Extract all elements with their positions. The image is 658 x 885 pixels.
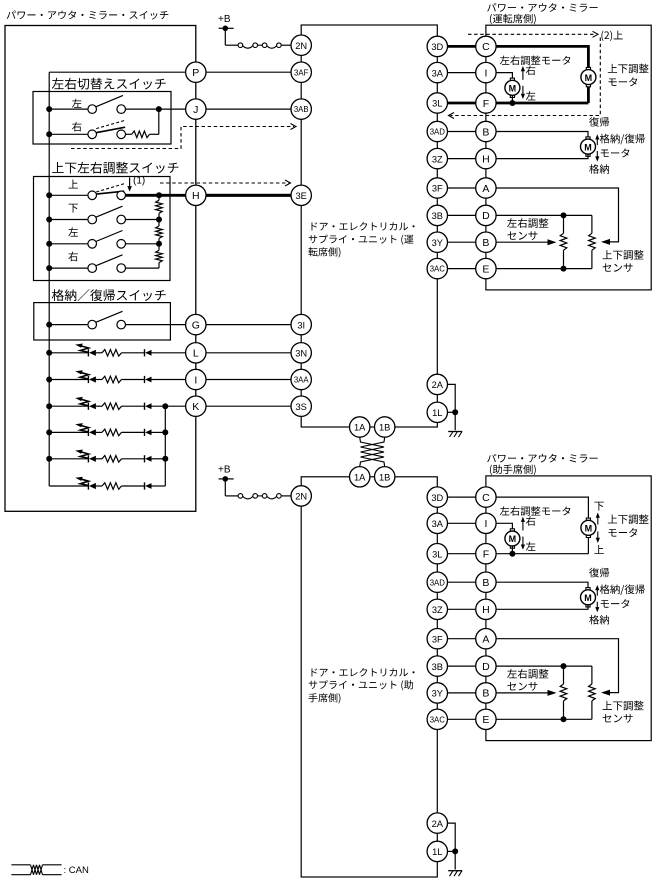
- svg-text:3Y: 3Y: [432, 238, 443, 248]
- wire LED to resistor (row 1): [96, 352, 102, 354]
- terminal 1B (driver bottom): [375, 417, 395, 437]
- switch contact left (adjust left): [88, 240, 97, 249]
- label: motor (passenger): [601, 599, 630, 608]
- label: power outer mirror (driver): [487, 3, 597, 12]
- connector terminal H (mirror driver): [476, 148, 496, 168]
- switch lever alternate position (dashed): [96, 120, 126, 129]
- wire left-right motor to F row (driver): [511, 95, 513, 103]
- label: up (adjust): [69, 180, 78, 189]
- svg-text:I: I: [194, 374, 197, 386]
- wire A to up-down sensor wiper (driver): [496, 188, 618, 242]
- wire E to sensors (driver): [496, 268, 592, 270]
- junction on bus (illumination row 5): [46, 456, 52, 462]
- switch contact left (retract): [88, 320, 97, 329]
- terminal 1L (unit driver): [427, 402, 447, 422]
- wire 3AC-E (driver): [448, 268, 476, 270]
- svg-text:C: C: [482, 492, 490, 504]
- thick wire up-switch contact to H and 3E: [125, 194, 302, 197]
- svg-text:F: F: [483, 98, 489, 110]
- direction arrow left (driver): [522, 86, 524, 97]
- wire LED to resistor (row 4): [96, 431, 102, 433]
- terminal 1B (passenger top): [375, 467, 395, 487]
- connector terminal 3B (unit passenger right): [427, 656, 447, 676]
- wire retract motor to H row (driver): [496, 154, 588, 159]
- junction on bus (illumination row 3): [46, 403, 52, 409]
- connector terminal F (mirror passenger): [476, 544, 496, 564]
- svg-text:3I: 3I: [297, 320, 305, 330]
- svg-text:3AC: 3AC: [430, 265, 446, 274]
- svg-text:M: M: [584, 142, 592, 152]
- arrowhead of (1) dashed path: [285, 180, 291, 186]
- resistor (illumination row 5): [102, 456, 122, 463]
- +B feed bar and node (passenger): [219, 478, 234, 480]
- svg-text:3A: 3A: [432, 519, 444, 529]
- up-down adjusting motor M (driver): [581, 67, 596, 86]
- dashed flow path (2) up (driver): [468, 33, 596, 35]
- wire bus to LED (row 6): [49, 485, 88, 487]
- terminal 1A (passenger top): [350, 467, 370, 487]
- svg-text:1L: 1L: [432, 408, 442, 418]
- junction on bus (selector left row): [46, 106, 52, 112]
- svg-text:: CAN: : CAN: [64, 865, 89, 876]
- connector terminal 3A (unit driver right): [427, 62, 447, 82]
- connector terminal A (mirror passenger): [476, 629, 496, 649]
- svg-text:1B: 1B: [379, 473, 390, 483]
- connector terminal 3Z (unit passenger right): [427, 599, 447, 619]
- resistor chain R1 (up-down): [156, 200, 163, 213]
- label: return (driver): [589, 117, 609, 127]
- resistor chain R2 (down-left): [156, 226, 163, 238]
- svg-text:1A: 1A: [354, 423, 366, 433]
- illumination LED D2: [88, 376, 96, 383]
- svg-text:3B: 3B: [432, 662, 443, 672]
- connector terminal 3F (unit passenger right): [427, 629, 447, 649]
- wire 3F-A (passenger): [448, 638, 476, 640]
- label: power outer mirror switch title: [7, 10, 169, 19]
- resistor (illumination row 1): [102, 350, 122, 357]
- svg-text:2A: 2A: [432, 380, 444, 390]
- wire contact to resistor (selector right): [126, 133, 132, 135]
- svg-text:(1): (1): [133, 176, 145, 187]
- connector terminal 3E (unit driver left): [291, 185, 311, 205]
- ground branch wire from 2A (passenger): [448, 823, 456, 869]
- connector terminal 3AF (unit driver left): [291, 62, 311, 82]
- operation arrow (1) pointing to up switch: [129, 178, 131, 189]
- wire bus to left contact (adjust left): [49, 243, 88, 245]
- connector terminal G (mirror switch): [186, 314, 206, 334]
- junction dot E row sensor1 (passenger): [561, 716, 567, 722]
- svg-text:3Z: 3Z: [432, 605, 443, 615]
- svg-text:M: M: [585, 73, 593, 83]
- label: retract (passenger): [589, 615, 609, 625]
- junction dot down row: [156, 217, 162, 223]
- connector terminal I (mirror switch): [186, 369, 206, 389]
- left-right adjusting motor M (passenger): [505, 529, 520, 548]
- switch contact right (selector left): [117, 105, 126, 114]
- connector terminal 3AD (unit passenger right): [427, 572, 447, 592]
- svg-text:3Y: 3Y: [432, 689, 443, 699]
- wire J-3AB: [206, 108, 291, 110]
- wire resistor to junction riser: [150, 133, 159, 135]
- wire 1L to ground branch: [448, 411, 456, 413]
- svg-text:H: H: [482, 153, 490, 165]
- connector terminal 3Y (unit passenger right): [427, 683, 447, 703]
- wire bus to LED (row 3): [49, 405, 88, 407]
- wire B to retract motor (passenger): [496, 582, 588, 590]
- switch contact right (selector right): [117, 130, 126, 139]
- junction dot K-column row 4: [162, 429, 168, 435]
- label: door electrical supply unit (driver) line1: [311, 222, 414, 231]
- direction arrow up (passenger): [597, 532, 599, 540]
- junction on bus (adjust down row): [46, 217, 52, 223]
- wire 3F-A (driver): [448, 187, 476, 189]
- label: return (passenger): [589, 568, 609, 578]
- connector terminal L (mirror switch): [186, 343, 206, 363]
- connector terminal C (mirror driver): [476, 36, 496, 56]
- svg-text:H: H: [482, 604, 490, 616]
- svg-text:M: M: [585, 524, 593, 534]
- resistor (illumination row 6): [102, 483, 122, 490]
- connector terminal 3B (unit driver right): [427, 205, 447, 225]
- svg-text:3D: 3D: [431, 42, 443, 52]
- svg-text:A: A: [482, 634, 489, 646]
- svg-text:3L: 3L: [432, 549, 442, 559]
- wire resistor to diode (row 6): [122, 485, 145, 487]
- svg-text:B: B: [482, 577, 489, 589]
- connector terminal 3L (unit driver right): [427, 93, 447, 113]
- switch contact left (selector left): [88, 105, 97, 114]
- label: left-right adjusting sensor (passenger): [507, 669, 548, 679]
- retract/return switch box: [34, 303, 171, 340]
- left-right adjusting sensor (potentiometer) (passenger): [563, 666, 565, 684]
- connector terminal 3F (unit driver right): [427, 178, 447, 198]
- connector terminal 3AD (unit driver right): [427, 121, 447, 141]
- wire retract motor to H row (passenger): [496, 604, 588, 609]
- svg-text:M: M: [584, 593, 592, 603]
- label: right (passenger): [526, 516, 536, 526]
- wire C to up-down motor (passenger): [496, 497, 588, 554]
- wire retract contact to G: [126, 324, 186, 326]
- junction dot up row at resistor chain: [156, 192, 162, 198]
- wire 3L-F (passenger): [448, 553, 476, 555]
- wire 3D-C (passenger): [448, 496, 476, 498]
- switch lever alternate position dashed (adjust up): [96, 183, 125, 192]
- svg-text:D: D: [482, 661, 490, 673]
- svg-text:I: I: [484, 67, 487, 79]
- junction on bus (illumination row 2): [46, 377, 52, 383]
- wire bus to LED (row 5): [49, 458, 88, 460]
- label line2: [309, 680, 413, 690]
- svg-text:+B: +B: [218, 14, 231, 25]
- illumination LED D4: [88, 429, 96, 436]
- svg-text:I: I: [484, 518, 487, 530]
- switch lever (retract, open): [96, 311, 123, 322]
- junction dot K row: [162, 403, 168, 409]
- label: retract/return (driver): [600, 134, 645, 145]
- wire C to up-down motor (driver): [496, 46, 588, 103]
- illumination LED D5: [88, 455, 96, 462]
- resistor (illumination row 4): [102, 429, 122, 436]
- label line3: [309, 693, 341, 703]
- retract/return motor M (passenger): [581, 588, 596, 607]
- connector terminal E (mirror passenger): [476, 709, 496, 729]
- terminal 2A (unit driver): [427, 374, 447, 394]
- power outer mirror switch box: [5, 26, 196, 512]
- ground (passenger unit): [448, 871, 462, 877]
- left-right adjusting sensor (potentiometer) (driver): [563, 215, 565, 233]
- connector terminal 3AC (unit driver right): [427, 258, 447, 278]
- connector terminal 3D (unit passenger right): [427, 487, 447, 507]
- retract/return motor M (driver): [581, 137, 596, 156]
- wire I-3AA: [206, 379, 291, 381]
- connector terminal B (mirror driver): [476, 232, 496, 252]
- wire G-3I: [206, 324, 291, 326]
- label: retract (driver): [589, 164, 609, 174]
- up-down adjusting motor M (passenger): [581, 518, 596, 537]
- wire E to sensors (passenger): [496, 718, 592, 720]
- label: up (passenger): [594, 545, 603, 554]
- junction dot ground branch: [452, 409, 458, 415]
- connector terminal 3S (unit driver left): [291, 396, 311, 416]
- CAN legend twisted pair symbol: [11, 865, 61, 875]
- junction dot K-column row 5: [162, 456, 168, 462]
- label: down (passenger): [594, 502, 603, 511]
- direction arrow left (passenger): [522, 537, 524, 548]
- switch contact left (adjust down): [88, 215, 97, 224]
- svg-text:1B: 1B: [379, 423, 390, 433]
- terminal 2N (unit passenger): [291, 486, 311, 506]
- svg-text:3E: 3E: [296, 191, 307, 201]
- wire 3AD-B (passenger): [448, 581, 476, 583]
- svg-text:E: E: [482, 263, 489, 275]
- svg-text:2N: 2N: [295, 492, 307, 502]
- dashed return path (driver): [451, 38, 601, 116]
- connector terminal A (mirror driver): [476, 178, 496, 198]
- illumination LED D1: [88, 349, 96, 356]
- dashed flow path from selector switch to 3AB: [71, 127, 294, 149]
- svg-text:1A: 1A: [354, 473, 366, 483]
- wire B to left-right sensor wiper (passenger): [496, 692, 548, 694]
- wire H-3E: [206, 194, 291, 197]
- label: retract/return switch: [52, 289, 166, 301]
- diode (illumination row 1): [145, 349, 152, 356]
- junction dot motor on F row (passenger): [509, 551, 515, 557]
- junction on bus (retract row): [46, 322, 52, 328]
- svg-text:M: M: [509, 84, 517, 94]
- CAN twisted pair wires: [360, 437, 385, 467]
- label: up-down adjusting sensor (driver): [603, 250, 644, 260]
- wire F row to up-down motor corner (driver): [496, 102, 588, 105]
- diode (illumination row 3): [145, 403, 152, 410]
- wire 3Y-B (driver): [448, 241, 476, 243]
- dashed flow path (1) from up switch to 3E: [160, 182, 289, 184]
- svg-text:3AF: 3AF: [294, 68, 309, 77]
- connector terminal B (mirror passenger): [476, 683, 496, 703]
- wire diode to K-column (row 4): [152, 431, 166, 433]
- label: left-right adjusting motor (driver): [500, 56, 571, 66]
- label: left (passenger): [526, 542, 536, 551]
- circuit breaker coil to 2N (passenger): [225, 494, 291, 499]
- terminal 1A (driver bottom): [350, 417, 370, 437]
- connector terminal 3Z (unit driver right): [427, 148, 447, 168]
- connector terminal 3AA (unit driver left): [291, 369, 311, 389]
- wire L-3N: [206, 352, 291, 354]
- return direction arrow (driver): [596, 137, 598, 145]
- K-column vertical wire: [164, 406, 166, 486]
- wire diode to terminal (row 2): [152, 379, 186, 381]
- svg-text:H: H: [192, 190, 200, 202]
- wire K-3S: [206, 405, 291, 407]
- wire LED to resistor (row 3): [96, 405, 102, 407]
- label: power outer mirror (passenger): [487, 454, 597, 463]
- connector terminal B (mirror passenger): [476, 572, 496, 592]
- junction on bus (adjust right row): [46, 265, 52, 271]
- wire 3B-D (driver): [448, 214, 476, 216]
- wire D to sensors (passenger): [496, 665, 592, 667]
- wire resistor to diode (row 2): [122, 379, 145, 381]
- connector terminal 3L (unit passenger right): [427, 544, 447, 564]
- svg-text:A: A: [482, 183, 489, 195]
- wire 3D-C (driver): [448, 45, 476, 48]
- junction dot D row sensor1 (driver): [561, 212, 567, 218]
- junction on bus (illumination row 1): [46, 350, 52, 356]
- label: left (driver): [526, 91, 536, 100]
- connector terminal B (mirror driver): [476, 121, 496, 141]
- wire down contact to chain: [126, 219, 160, 221]
- wire bus to left contact (selector left): [49, 108, 88, 110]
- switch contact left (adjust up): [88, 191, 97, 200]
- wire bus to left contact (adjust up): [49, 194, 88, 196]
- wire bus to left contact (adjust right): [49, 267, 88, 269]
- wire bus to left contact (retract): [49, 324, 88, 326]
- switch contact left (adjust right): [88, 264, 97, 273]
- direction arrow right (driver): [522, 68, 524, 80]
- wire diode through junction to K: [152, 405, 186, 407]
- junction resistor branch on left row: [156, 106, 162, 112]
- wire F row to up-down motor corner (passenger): [496, 553, 588, 555]
- switch lever (adjust right, open): [96, 255, 123, 266]
- connector terminal C (mirror passenger): [476, 487, 496, 507]
- wire 3Z-H (passenger): [448, 608, 476, 610]
- wire 1L to ground branch (passenger): [448, 850, 456, 852]
- wire resistor to diode (row 4): [122, 431, 145, 433]
- connector terminal K (mirror switch): [186, 396, 206, 416]
- wire 3AC-E (passenger): [448, 718, 476, 720]
- wire 3Z-H (driver): [448, 158, 476, 160]
- wire resistor to diode (row 3): [122, 405, 145, 407]
- wire I to left-right motor (driver): [496, 73, 512, 81]
- wire 3AD-B (driver): [448, 131, 476, 133]
- up-down adjusting sensor (potentiometer) (passenger): [591, 666, 593, 684]
- junction on bus (adjust left row): [46, 241, 52, 247]
- wire D to sensors (driver): [496, 214, 592, 216]
- connector terminal H (mirror switch): [186, 185, 206, 205]
- left-right adjusting motor M (driver): [505, 78, 520, 97]
- label: right (adjust): [68, 252, 78, 262]
- svg-text:2A: 2A: [432, 819, 444, 829]
- svg-text:1L: 1L: [432, 847, 442, 857]
- wire left-right motor to F row (passenger): [511, 546, 513, 554]
- label: down (adjust): [69, 204, 78, 213]
- switch contact right (adjust right): [117, 264, 126, 273]
- wire B to left-right sensor wiper (driver): [496, 241, 548, 243]
- svg-text:3F: 3F: [432, 634, 443, 644]
- connector terminal E (mirror driver): [476, 258, 496, 278]
- label: right (selector): [72, 122, 82, 132]
- switch contact right (adjust up): [117, 191, 126, 200]
- retract direction arrow (passenger): [596, 602, 598, 610]
- label line2: [309, 235, 414, 245]
- svg-text:J: J: [193, 104, 198, 116]
- wire selector-left contact to J: [126, 108, 186, 110]
- switch lever (adjust up, closed): [96, 191, 124, 194]
- svg-text:3Z: 3Z: [432, 154, 443, 164]
- wire 3A-I (passenger): [448, 522, 476, 524]
- connector terminal 2N (unit driver left): [291, 35, 311, 55]
- label: (2) up: [601, 31, 622, 41]
- supply bus vertical: [48, 72, 50, 486]
- svg-text:3L: 3L: [432, 99, 442, 109]
- junction on bus (illumination row 4): [46, 429, 52, 435]
- wire bus to LED (row 1): [49, 352, 88, 354]
- direction arrow down (passenger): [597, 516, 599, 525]
- ground branch wire from 2A: [448, 384, 456, 430]
- wire 3Y-B (passenger): [448, 692, 476, 694]
- svg-text:F: F: [483, 549, 489, 561]
- resistor (illumination row 2): [102, 376, 122, 383]
- label: door electrical supply unit (passenger) line1: [311, 668, 414, 677]
- label: left (selector): [72, 99, 82, 108]
- label: motor (driver): [601, 148, 630, 157]
- wire bus to LED (row 2): [49, 379, 88, 381]
- power outer mirror (driver) box: [486, 25, 651, 290]
- switch lever (adjust left, open): [96, 231, 123, 242]
- svg-text:D: D: [482, 210, 490, 222]
- label: left-right selector switch: [52, 78, 166, 90]
- connector terminal I (mirror driver): [476, 62, 496, 82]
- illumination LED D3: [88, 403, 96, 410]
- label: up-down-left-right adjusting switch: [52, 162, 178, 174]
- svg-text:3S: 3S: [296, 402, 307, 412]
- connector terminal D (mirror passenger): [476, 656, 496, 676]
- wire left contact to chain: [126, 243, 160, 245]
- switch contact right (adjust down): [117, 215, 126, 224]
- svg-text:P: P: [192, 67, 199, 79]
- wire P-3AF: [206, 71, 291, 73]
- svg-text:3A: 3A: [432, 68, 444, 78]
- junction on bus (selector right row): [46, 131, 52, 137]
- svg-text:3F: 3F: [432, 184, 443, 194]
- svg-text:B: B: [482, 237, 489, 249]
- adjusting switch box: [34, 177, 171, 281]
- connector terminal H (mirror passenger): [476, 599, 496, 619]
- wire LED to resistor (row 6): [96, 485, 102, 487]
- svg-text:+B: +B: [218, 464, 231, 475]
- connector terminal 3N (unit driver left): [291, 343, 311, 363]
- svg-text:G: G: [192, 319, 200, 331]
- junction on bus (adjust up row): [46, 192, 52, 198]
- wire A to up-down sensor wiper (passenger): [496, 639, 618, 693]
- switch lever (selector right, closed): [96, 127, 125, 133]
- resistor (selector right row): [132, 131, 150, 138]
- wire right contact to chain bottom: [126, 267, 160, 269]
- label: up-down adjusting motor (passenger): [608, 514, 649, 524]
- svg-text:B: B: [482, 126, 489, 138]
- switch lever (selector left, open): [96, 95, 123, 106]
- wire bus to left contact (adjust down): [49, 219, 88, 221]
- label: right (driver): [526, 65, 536, 75]
- connector terminal I (mirror passenger): [476, 513, 496, 533]
